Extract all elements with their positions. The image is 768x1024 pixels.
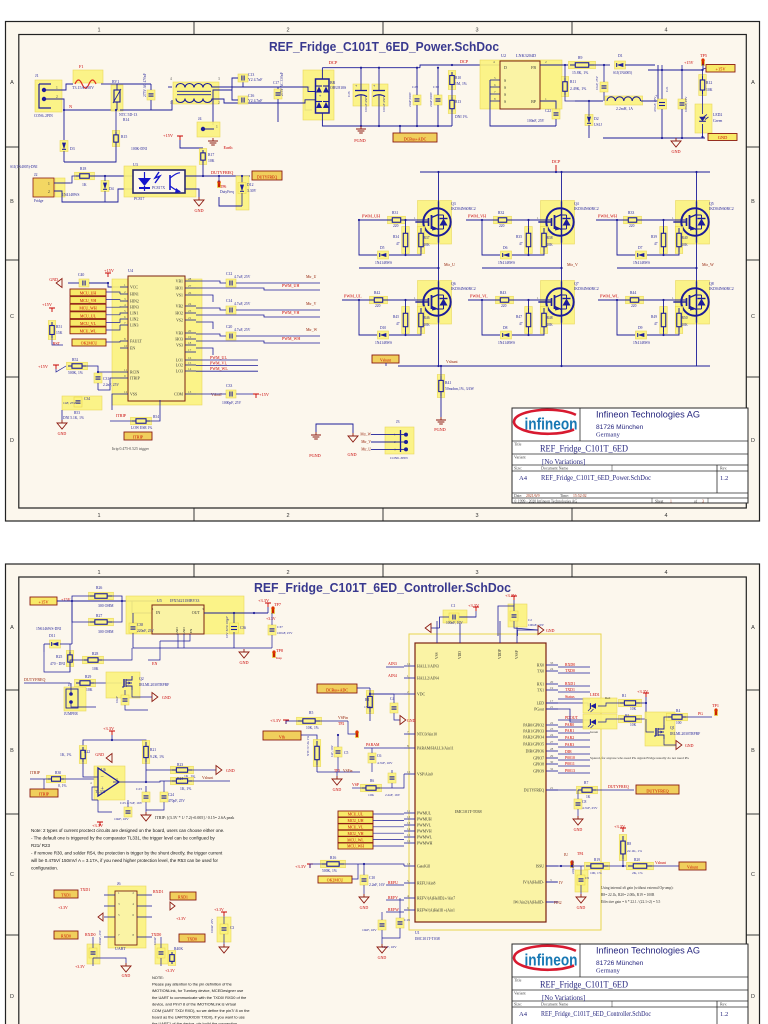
capacitor C24 [160,792,168,802]
power +3.3V opamp [111,731,113,735]
svg-text:IKD04N60RC2: IKD04N60RC2 [709,287,734,291]
svg-text:ITRIP: ITRIP [133,435,144,440]
wire DCP to U2 D pin [452,64,500,66]
svg-text:23: 23 [550,727,554,731]
U4 pin 20 VB3 [185,332,196,334]
wires IGBT collectors to DCP rail [438,172,440,202]
resistor R49 47 [660,307,668,334]
svg-text:24: 24 [188,302,192,306]
svg-text:R54: R54 [153,415,159,419]
svg-text:19: 19 [188,335,192,339]
wires phases to J3 [371,434,401,436]
svg-text:21: 21 [550,705,554,709]
svg-text:HIN3: HIN3 [130,306,139,310]
svg-text:TX1: TX1 [537,689,544,693]
ground symbols bottom PGND [316,424,353,433]
U4 pin 11 RCIN [120,371,128,373]
svg-text:PWM_WL: PWM_WL [210,366,228,371]
svg-text:R39: R39 [651,235,657,239]
svg-text:Vfb: Vfb [279,735,285,740]
ports MCU_UH..MCU_WL [70,289,106,296]
svg-text:1N4148WS: 1N4148WS [62,193,79,197]
svg-text:RV1: RV1 [112,79,119,84]
svg-text:PWMUH: PWMUH [417,818,432,822]
svg-text:U4: U4 [128,268,134,273]
svg-text:Title: Title [514,978,522,983]
svg-text:IV: IV [559,881,563,885]
resistor R25 470 DNI [66,651,74,667]
svg-text:3: 3 [475,513,478,519]
svg-text:Mtr_U: Mtr_U [306,275,317,279]
resistor R47 47 [525,307,533,334]
svg-text:REF_Fridge_C101T_6ED: REF_Fridge_C101T_6ED [540,445,628,455]
svg-text:PIN2: PIN2 [554,901,562,905]
svg-text:EN: EN [152,661,157,666]
svg-text:D9: D9 [638,326,643,330]
svg-text:100uF 450V: 100uF 450V [382,95,386,112]
svg-text:A: A [751,625,755,631]
resistor R28 10K [83,656,104,664]
capacitor C29 [413,95,421,105]
ground GND opto [198,197,200,200]
U2 S pins to ground rail [490,79,500,81]
svg-text:RXD1: RXD1 [565,682,575,686]
svg-text:RCIN: RCIN [130,371,139,375]
svg-text:C: C [751,872,755,878]
svg-text:TXD0: TXD0 [151,932,161,937]
diode D4 [101,181,109,192]
svg-text:TP7: TP7 [274,602,281,607]
svg-text:PWMWL: PWMWL [417,836,433,840]
svg-text:GPIO9: GPIO9 [533,770,544,774]
U1 pin ISSU [546,865,558,867]
diode D8 1N4148WS [501,331,512,339]
U1 pin 22 PAR0/GPIO2 [546,724,558,726]
svg-text:11: 11 [124,368,127,372]
ic U2 LNK3204D [480,60,562,109]
resistor R37 10K [417,227,425,254]
capacitor C12 [226,279,236,287]
svg-text:C33: C33 [226,384,232,388]
port DCBus+ADC [399,126,401,133]
svg-text:PGND: PGND [434,427,445,432]
svg-text:C24: C24 [168,793,174,797]
svg-text:IMC101T-T038: IMC101T-T038 [455,809,482,814]
svg-text:220: 220 [393,224,399,228]
svg-text:HALL2/AIN4: HALL2/AIN4 [417,677,439,681]
svg-text:R37: R37 [424,236,430,240]
zener D12 [236,176,249,210]
svg-text:C37: C37 [277,625,283,629]
svg-text:+3.3V: +3.3V [75,965,85,969]
capacitor C25 [678,99,686,109]
svg-text:C5: C5 [344,751,348,755]
resistor R34 47 [402,227,410,254]
svg-text:board as the UART0(RXD0/ TXD0): board as the UART0(RXD0/ TXD0), if you w… [152,1015,245,1020]
resistor R8 22.1K [619,835,627,861]
wire RCIN [98,371,120,373]
port ITRIP sheet2 [30,789,58,797]
ground C1 left [431,627,440,629]
svg-text:DCP: DCP [552,159,561,164]
wire R13 bottom [451,112,453,126]
svg-text:S: S [504,79,506,83]
svg-text:R10: R10 [455,76,461,80]
svg-text:+15V: +15V [38,364,49,369]
svg-text:Vshunt: Vshunt [202,776,214,780]
svg-text:A4: A4 [519,1011,528,1018]
ground GND opamp minus [106,754,112,763]
svg-text:R4: R4 [676,709,680,713]
U1 pin 11 PWMUL [404,812,415,814]
svg-text:Mtr_W: Mtr_W [702,262,714,267]
wires Q5 gate network [663,220,665,228]
capacitor C14 [226,306,236,314]
svg-text:MCU_WL: MCU_WL [347,838,364,842]
wires opamp [83,762,98,777]
svg-text:C: C [751,314,755,320]
svg-text:R42: R42 [374,291,380,295]
U4 pin 1 VCC [120,286,128,288]
svg-text:R46: R46 [424,316,430,320]
svg-text:TP2: TP2 [338,722,344,726]
svg-text:D5: D5 [380,246,385,250]
svg-text:HO1: HO1 [175,287,183,291]
svg-text:R29: R29 [85,675,91,679]
svg-text:VB1: VB1 [176,280,183,284]
svg-text:47: 47 [519,242,523,246]
svg-text:VB2: VB2 [176,305,183,309]
svg-text:3.30V: 3.30V [247,189,257,193]
svg-text:LNK3204D: LNK3204D [516,53,536,58]
ic U4 gate driver [112,279,202,405]
svg-text:+3.3V: +3.3V [270,718,282,723]
wire zener bottom [219,197,242,206]
svg-text:R48: R48 [547,316,553,320]
svg-text:10K: 10K [547,243,554,247]
svg-text:GND: GND [58,431,67,436]
svg-text:1: 1 [670,500,672,504]
U1 pin 24 PAR2/GPIO4 [546,736,558,738]
svg-text:P0013: P0013 [565,769,575,773]
svg-text:24: 24 [550,733,554,737]
U4 pin 13 COM [185,393,196,395]
svg-text:R20: R20 [634,858,640,862]
U4 pin 21 VS2 [185,319,196,321]
svg-text:EN: EN [130,347,135,351]
test point TP1 [715,711,718,716]
svg-text:DIR/GPIO6: DIR/GPIO6 [526,750,544,754]
U1 pin 20 RX1 [546,683,558,685]
svg-text:S: S [504,86,506,90]
svg-text:LO2: LO2 [176,364,183,368]
title block sheet1 [512,408,748,504]
svg-text:R1: R1 [622,694,626,698]
svg-text:1.2: 1.2 [720,475,728,482]
svg-text:C38: C38 [137,623,143,627]
svg-text:10K: 10K [208,159,215,163]
resistor R16 500K [321,860,346,868]
U4 pin 10 EN [120,347,128,349]
wire +15V rail [648,69,703,71]
svg-text:VDDP: VDDP [498,649,502,659]
svg-text:Effective gain = 6 * 22.1 / (2: Effective gain = 6 * 22.1 / (22.1+2) = 5… [601,900,661,904]
svg-text:R2: R2 [365,698,369,702]
diode D3 [63,110,65,140]
capacitor C8 [574,799,582,809]
svg-text:10K: 10K [368,793,375,797]
U1 pin 3 IV/(A)HaIlD- [546,881,558,883]
U1 pin 6 REFW/(A)HaIlIl +(Ain1 [404,909,415,911]
svg-text:Size:: Size: [514,1002,522,1007]
resistor R46 10K [417,307,425,334]
svg-text:24: 24 [550,667,554,671]
svg-text:GND: GND [718,135,728,140]
resistor R10 [448,71,456,90]
svg-text:+3.3V: +3.3V [505,593,517,598]
svg-text:R17: R17 [208,153,214,157]
svg-text:+15V: +15V [715,67,726,72]
svg-text:R32: R32 [498,211,504,215]
wire HO to PWM_UH [196,288,320,290]
svg-text:B: B [751,748,755,754]
port +15V in [30,597,57,605]
wire gate feed Q8 [642,299,687,301]
svg-text:LIN2: LIN2 [130,318,138,322]
svg-text:GND: GND [407,719,416,723]
svg-text:R13: R13 [455,100,461,104]
svg-text:PWMUL: PWMUL [417,812,432,816]
svg-text:C8: C8 [582,800,586,804]
svg-text:R52: R52 [72,358,78,362]
wire gate feed Q3 [404,219,429,221]
svg-text:LO1: LO1 [176,359,183,363]
svg-text:Germany: Germany [596,432,621,439]
svg-text:F1: F1 [79,64,83,69]
U1 pin 2 VDC [404,693,415,695]
svg-text:R8: R8 [627,842,631,846]
svg-text:20: 20 [188,329,192,333]
svg-text:C9: C9 [585,876,589,880]
port GND [701,136,703,138]
svg-text:C10: C10 [369,876,375,880]
resistor R40 10K [675,227,683,254]
connector J3 [385,427,414,454]
svg-text:P0010: P0010 [565,756,575,760]
svg-text:100nF 25V: 100nF 25V [210,918,214,933]
wire ITRIP into pin [98,378,120,390]
svg-text:S: S [504,100,506,104]
capacitor C22 [552,109,560,119]
svg-text:P0011: P0011 [565,762,575,766]
wires IGBT bottom emitters to shunt rail [438,322,440,366]
svg-text:LOW ESR 1%: LOW ESR 1% [131,426,152,430]
svg-text:PWM_WH: PWM_WH [282,336,300,341]
svg-text:275V AC 470nF: 275V AC 470nF [143,73,147,97]
svg-text:R28: R28 [92,652,98,656]
U4 pin 27 HO1 [185,287,196,289]
svg-text:DUTYFREQ: DUTYFREQ [24,677,45,682]
diode D5 1N4148WS [378,251,389,259]
svg-text:A4: A4 [519,475,528,482]
svg-text:15: 15 [407,770,411,774]
capacitor C9 [575,870,588,892]
svg-text:R41: R41 [445,381,451,385]
diode D1 [594,64,610,66]
svg-text:Variant: Variant [514,455,526,460]
svg-text:C21: C21 [665,86,669,92]
svg-text:10: 10 [124,344,128,348]
title block sheet2 [512,944,748,1024]
svg-text:C26: C26 [347,91,351,97]
capacitor C1 [443,610,467,623]
svg-text:13: 13 [407,821,411,825]
transistor Q6 IKD04N60RC2 [418,281,452,325]
svg-text:12: 12 [407,815,411,819]
svg-text:17: 17 [550,699,554,703]
svg-text:GND: GND [182,627,186,635]
svg-text:PAR2/GPIO4: PAR2/GPIO4 [523,736,544,740]
svg-text:TP4: TP4 [577,852,583,856]
connector J4 [197,122,220,137]
svg-text:R35: R35 [516,235,522,239]
svg-text:ITRIP: ITRIP [30,770,41,775]
svg-text:R21/ R23: R21/ R23 [31,843,51,848]
svg-text:19: 19 [550,686,554,690]
svg-text:REF_Fridge_C101T_6ED_Power.Sch: REF_Fridge_C101T_6ED_Power.SchDoc [541,474,651,482]
ground rail and GND symbol [603,137,705,139]
svg-text:A: A [10,80,14,86]
regulator U5 IFX54211MBV33 [126,596,244,634]
svg-text:PWM_UL: PWM_UL [344,294,362,299]
svg-text:TP5: TP5 [700,53,707,58]
svg-text:GND: GND [333,787,342,792]
svg-text:+3.3V: +3.3V [103,726,115,731]
svg-text:REFU: REFU [388,881,398,885]
svg-text:Red: Red [605,696,611,700]
svg-text:C40: C40 [78,273,84,277]
capacitor C16 [238,96,248,104]
svg-text:VSS: VSS [435,652,439,659]
svg-text:GND: GND [49,277,58,282]
capacitor C19 [396,918,404,928]
wires Q3 gate network [405,220,407,228]
resistor R21 [142,741,150,764]
svg-text:Infineon Technologies AG: Infineon Technologies AG [596,946,700,956]
capacitor C18 [600,82,608,92]
capacitor C2 [508,604,527,627]
svg-text:15: 15 [407,833,411,837]
svg-text:U6: U6 [101,768,106,772]
svg-text:LED: LED [537,702,545,706]
svg-text:4: 4 [170,77,172,81]
svg-text:17: 17 [188,348,192,352]
svg-text:PAR3: PAR3 [565,743,574,747]
svg-text:REFW/(A)HaIlIl +(Ain1: REFW/(A)HaIlIl +(Ain1 [417,909,455,913]
port DCBus+ADC sheet2 [317,684,357,693]
svg-text:J2: J2 [34,172,38,177]
svg-text:10K: 10K [630,707,637,711]
U1 pin 14 PWMVH [404,830,415,832]
transistor Q3 IKD04N60RC2 [418,201,452,245]
diode D9 1N4148WS [636,331,647,339]
svg-text:16: 16 [407,839,411,843]
svg-text:VSP/Ain0: VSP/Ain0 [417,773,433,777]
U1 pin 21 PGout [546,708,558,710]
optocoupler U3 PC817 [124,166,196,197]
resistor R15 [112,131,120,147]
svg-text:R40: R40 [682,236,688,240]
svg-text:DNI 1%: DNI 1% [455,115,467,119]
svg-text:R6: R6 [370,779,374,783]
resistor R52 500K [67,362,88,370]
svg-text:R43: R43 [500,291,506,295]
svg-text:C3: C3 [230,926,234,930]
port ITRIP [124,432,152,440]
svg-text:D12: D12 [247,183,254,187]
svg-text:HIN2: HIN2 [130,300,139,304]
wire NTC bottom rail [317,771,360,773]
svg-text:MCU_UL: MCU_UL [80,314,97,318]
connector J2 [33,178,54,197]
svg-text:C23: C23 [136,787,142,791]
svg-text:Size:: Size: [514,466,522,471]
svg-text:ITRIP: ITRIP [116,413,127,418]
svg-text:VSSP: VSSP [515,650,519,659]
U1 pin 18 GateKill [404,865,415,867]
test point TP6 [218,183,221,188]
U4 pin 14 LO3 [185,370,196,372]
svg-text:GND: GND [347,452,356,457]
svg-text:220: 220 [629,224,635,228]
svg-text:Vshunt: Vshunt [380,359,392,363]
svg-text:10K: 10K [630,723,637,727]
U1 pin 7 NTC0/Ain10 [404,733,415,735]
svg-text:GND: GND [162,695,171,700]
svg-text:TP1: TP1 [712,703,719,708]
capacitor C7 [388,773,396,783]
wire U2 FB to R9 [540,64,568,66]
svg-text:2021/6/9: 2021/6/9 [526,494,540,498]
inductor L2 [575,100,603,102]
U1 pin 12 PWMUH [404,818,415,820]
svg-text:Y2 4.7nF: Y2 4.7nF [248,99,262,103]
connector J1 [35,80,62,112]
U1 pin 27 PAR3/GPIO5 [546,743,558,745]
sheet 2 frame (Controller schematic) [6,564,760,1024]
svg-text:VS3: VS3 [176,344,183,348]
svg-text:+3.3V: +3.3V [637,689,649,694]
svg-text:14: 14 [407,827,411,831]
resistor R50 10K [675,307,683,334]
svg-text:10K: 10K [706,88,713,92]
svg-text:C6: C6 [377,754,381,758]
svg-text:32: 32 [550,767,554,771]
svg-text:100: 100 [676,721,682,725]
U1 pin 15 PWMWL [404,836,415,838]
U1 pin 33 RX0 [546,664,558,666]
svg-text:23: 23 [188,309,192,313]
svg-text:Mtr_W: Mtr_W [306,328,318,332]
wire LED pins right [546,703,588,706]
svg-text:IRLML2030TRPBF: IRLML2030TRPBF [670,732,700,736]
svg-text:PGND: PGND [354,138,365,143]
svg-text:TXD1: TXD1 [61,894,71,898]
wires Q8 gate network [663,300,665,308]
svg-text:14: 14 [188,367,192,371]
resistor R3 10K [619,715,642,723]
svg-text:R24: R24 [177,777,183,781]
